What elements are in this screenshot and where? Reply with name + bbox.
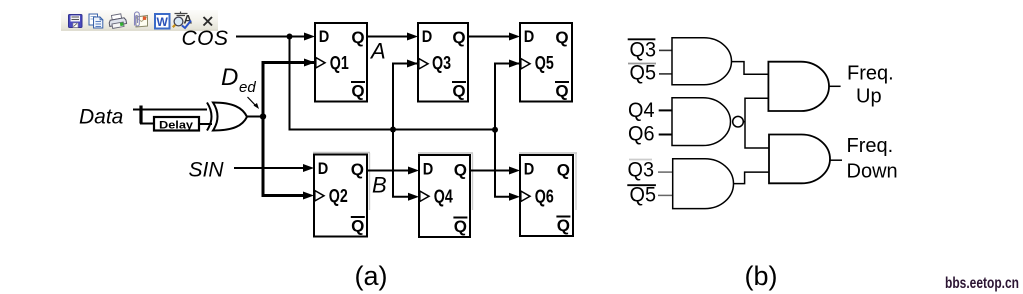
svg-text:Freq.: Freq. (847, 63, 894, 85)
svg-text:Q: Q (351, 28, 364, 47)
toolbar background (61, 10, 218, 31)
svg-text:(b): (b) (745, 261, 778, 291)
wire Q1 to Q3 (node A) (367, 33, 418, 41)
wire Q2 to Q4 (node B) (367, 167, 419, 175)
svg-text:Delay: Delay (159, 119, 194, 131)
label Q6 (628, 123, 655, 146)
wire Q3 to Q5 (468, 33, 520, 41)
node Ded junction (260, 113, 266, 119)
svg-text:Q: Q (452, 28, 465, 47)
svg-text:ed: ed (239, 79, 256, 96)
wire G1 out step (732, 62, 769, 75)
svg-text:Q6: Q6 (628, 123, 655, 146)
flip-flop U5 Q5 (520, 23, 572, 102)
and gate G5 Freq Down (769, 135, 830, 184)
svg-text:Q: Q (351, 217, 364, 236)
label Freq Down (847, 135, 898, 183)
svg-text:Q: Q (555, 82, 568, 101)
svg-text:Q: Q (557, 216, 570, 235)
label Ded (221, 64, 256, 96)
svg-text:B: B (372, 173, 387, 198)
svg-text:Freq.: Freq. (847, 135, 894, 157)
wire G2 bubble split (743, 98, 769, 148)
svg-text:Q5: Q5 (535, 53, 554, 73)
svg-text:Q: Q (351, 160, 364, 179)
svg-text:Down: Down (847, 161, 898, 183)
svg-text:Q: Q (351, 82, 364, 101)
svg-text:(a): (a) (355, 261, 388, 291)
wire Ded clock trunk (263, 59, 315, 200)
svg-text:D: D (318, 159, 329, 178)
svg-text:D: D (524, 27, 535, 46)
label A (369, 39, 386, 64)
svg-text:Q3: Q3 (628, 159, 655, 182)
svg-text:Q: Q (555, 28, 568, 47)
svg-text:bbs.eetop.cn: bbs.eetop.cn (945, 275, 1019, 292)
wire Data to Delay (140, 123, 154, 125)
svg-text:Q4: Q4 (628, 99, 655, 122)
svg-text:D: D (422, 27, 433, 46)
svg-text:D: D (221, 64, 238, 91)
flip-flop U2 Q2 (313, 153, 370, 237)
xor gate U1 (207, 103, 247, 131)
label SIN (189, 159, 225, 182)
wire Data input (133, 109, 207, 111)
wire Delay to XOR (199, 123, 212, 125)
pointer arrow Ded (248, 97, 260, 109)
svg-text:Q: Q (557, 160, 570, 179)
node bus-2 (492, 127, 498, 133)
and gate G4 Freq Up (768, 62, 829, 111)
wire COS to Q1 D (236, 33, 315, 41)
wire g3 inputs (658, 172, 673, 195)
label Data (79, 106, 123, 129)
nand gate G2 (672, 98, 743, 146)
label Freq Up (847, 63, 894, 108)
svg-text:Q3: Q3 (432, 53, 451, 73)
label Q5bar g1 (628, 62, 656, 85)
wire G3 out step (734, 172, 770, 184)
svg-text:Q: Q (454, 160, 467, 179)
svg-text:Q: Q (452, 82, 465, 101)
svg-text:A: A (369, 39, 386, 64)
svg-text:D: D (319, 27, 330, 46)
toolbar icon copy (89, 14, 103, 28)
toolbar close button (204, 17, 213, 26)
wire COS node down to bus (289, 37, 291, 131)
toolbar icon word (155, 14, 170, 29)
label Q3 g3 (628, 159, 655, 182)
svg-text:Q5: Q5 (630, 62, 657, 85)
caption (a) (355, 261, 388, 291)
svg-text:Q3: Q3 (630, 39, 657, 62)
flip-flop U3 Q3 (418, 23, 468, 102)
delay block (154, 117, 199, 131)
svg-text:COS: COS (182, 27, 229, 50)
svg-text:Q2: Q2 (329, 186, 348, 206)
toolbar icon print (108, 13, 127, 29)
wire G4 output (829, 85, 841, 87)
node on COS wire (287, 34, 293, 40)
label COS (182, 27, 229, 50)
label B (372, 173, 387, 198)
watermark bbs.eetop.cn (945, 275, 1019, 292)
label Q4 (628, 99, 655, 122)
toolbar icon mail (135, 12, 148, 27)
flip-flop U4 Q4 (418, 153, 473, 237)
svg-text:D: D (524, 160, 535, 179)
svg-text:SIN: SIN (189, 159, 225, 182)
svg-text:D: D (423, 160, 434, 179)
svg-text:Up: Up (856, 86, 882, 108)
svg-text:Q5: Q5 (630, 184, 657, 207)
wire clock riser x495 (495, 60, 520, 201)
svg-text:W: W (157, 15, 169, 29)
svg-text:Q: Q (454, 217, 467, 236)
flip-flop U1 Q1 (315, 23, 367, 102)
wire clock riser x393 (393, 60, 419, 201)
wire g1 inputs (659, 50, 672, 74)
wire G5 output (830, 159, 842, 161)
flip-flop U6 Q6 (519, 153, 577, 236)
and gate G1 (672, 38, 731, 85)
svg-text:Q1: Q1 (330, 53, 349, 73)
wire XOR output (247, 116, 263, 118)
node Data junction tick (139, 106, 142, 124)
toolbar icon find (173, 12, 193, 29)
label Q5bar g3 (627, 184, 656, 207)
toolbar icon save (69, 15, 83, 28)
svg-text:Q4: Q4 (434, 187, 453, 207)
wire SIN to Q2 D (234, 164, 314, 172)
svg-text:Data: Data (79, 106, 123, 129)
wire Q4 to Q6 (470, 167, 520, 175)
svg-text:Q6: Q6 (535, 187, 554, 207)
caption (b) (745, 261, 778, 291)
wire bus horizontal (289, 129, 496, 131)
label Q3bar g1 (628, 39, 656, 62)
wire g2 inputs (659, 110, 672, 134)
node bus-1 (390, 127, 396, 133)
and gate G3 (673, 159, 734, 209)
